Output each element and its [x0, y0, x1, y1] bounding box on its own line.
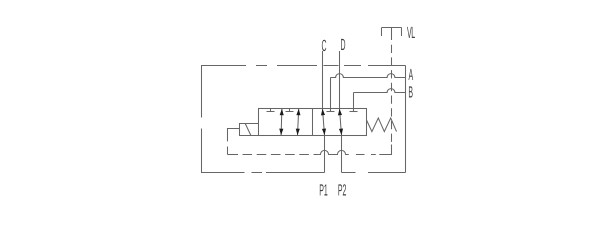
flow arrow right-2 D-to-P2 (double-headed)	[338, 109, 343, 136]
svg-text:P2: P2	[338, 181, 347, 199]
port line P1	[324, 136, 326, 173]
port line D	[339, 51, 341, 109]
flow arrow right-1 C-to-P1 (double-headed)	[321, 109, 326, 136]
valve position divider	[312, 109, 314, 136]
svg-text:B: B	[408, 84, 413, 102]
svg-text:VL: VL	[407, 24, 415, 42]
spring	[367, 118, 397, 132]
blocked port T right-A	[327, 111, 335, 113]
enclosure right edge	[405, 66, 407, 173]
enclosure bottom edge	[201, 172, 406, 174]
actuator box (lever)	[240, 124, 259, 136]
svg-text:A: A	[409, 66, 414, 84]
flow arrow left-1 (double-headed)	[279, 109, 284, 136]
vent port VL symbol	[382, 28, 402, 41]
line A with crossover humps over D and VL	[331, 74, 406, 78]
vent return dashed line bottom	[228, 154, 239, 156]
blocked port T right-B	[350, 111, 358, 113]
valve body (2-position, 6-way)	[259, 109, 367, 136]
svg-text:C: C	[322, 37, 327, 55]
blocked port T left-1	[267, 109, 275, 112]
svg-text:D: D	[341, 36, 346, 54]
flow arrow left-2 (double-headed)	[296, 109, 301, 136]
line B with crossover hump over VL	[354, 89, 406, 93]
line A feed into valve	[330, 78, 332, 112]
blocked port T left-2	[286, 109, 294, 112]
port line C	[322, 51, 324, 109]
port line P2	[341, 136, 343, 173]
crossover humps over P1 P2	[318, 150, 349, 154]
actuator diagonal stroke	[245, 124, 251, 136]
actuator lead wire	[228, 129, 240, 155]
line B feed into valve	[353, 93, 355, 112]
vent line VL dashed vertical	[379, 145, 391, 155]
enclosure top edge (long-dash phantom line)	[201, 65, 406, 67]
enclosure left edge	[201, 66, 203, 173]
svg-text:P1: P1	[319, 181, 328, 199]
